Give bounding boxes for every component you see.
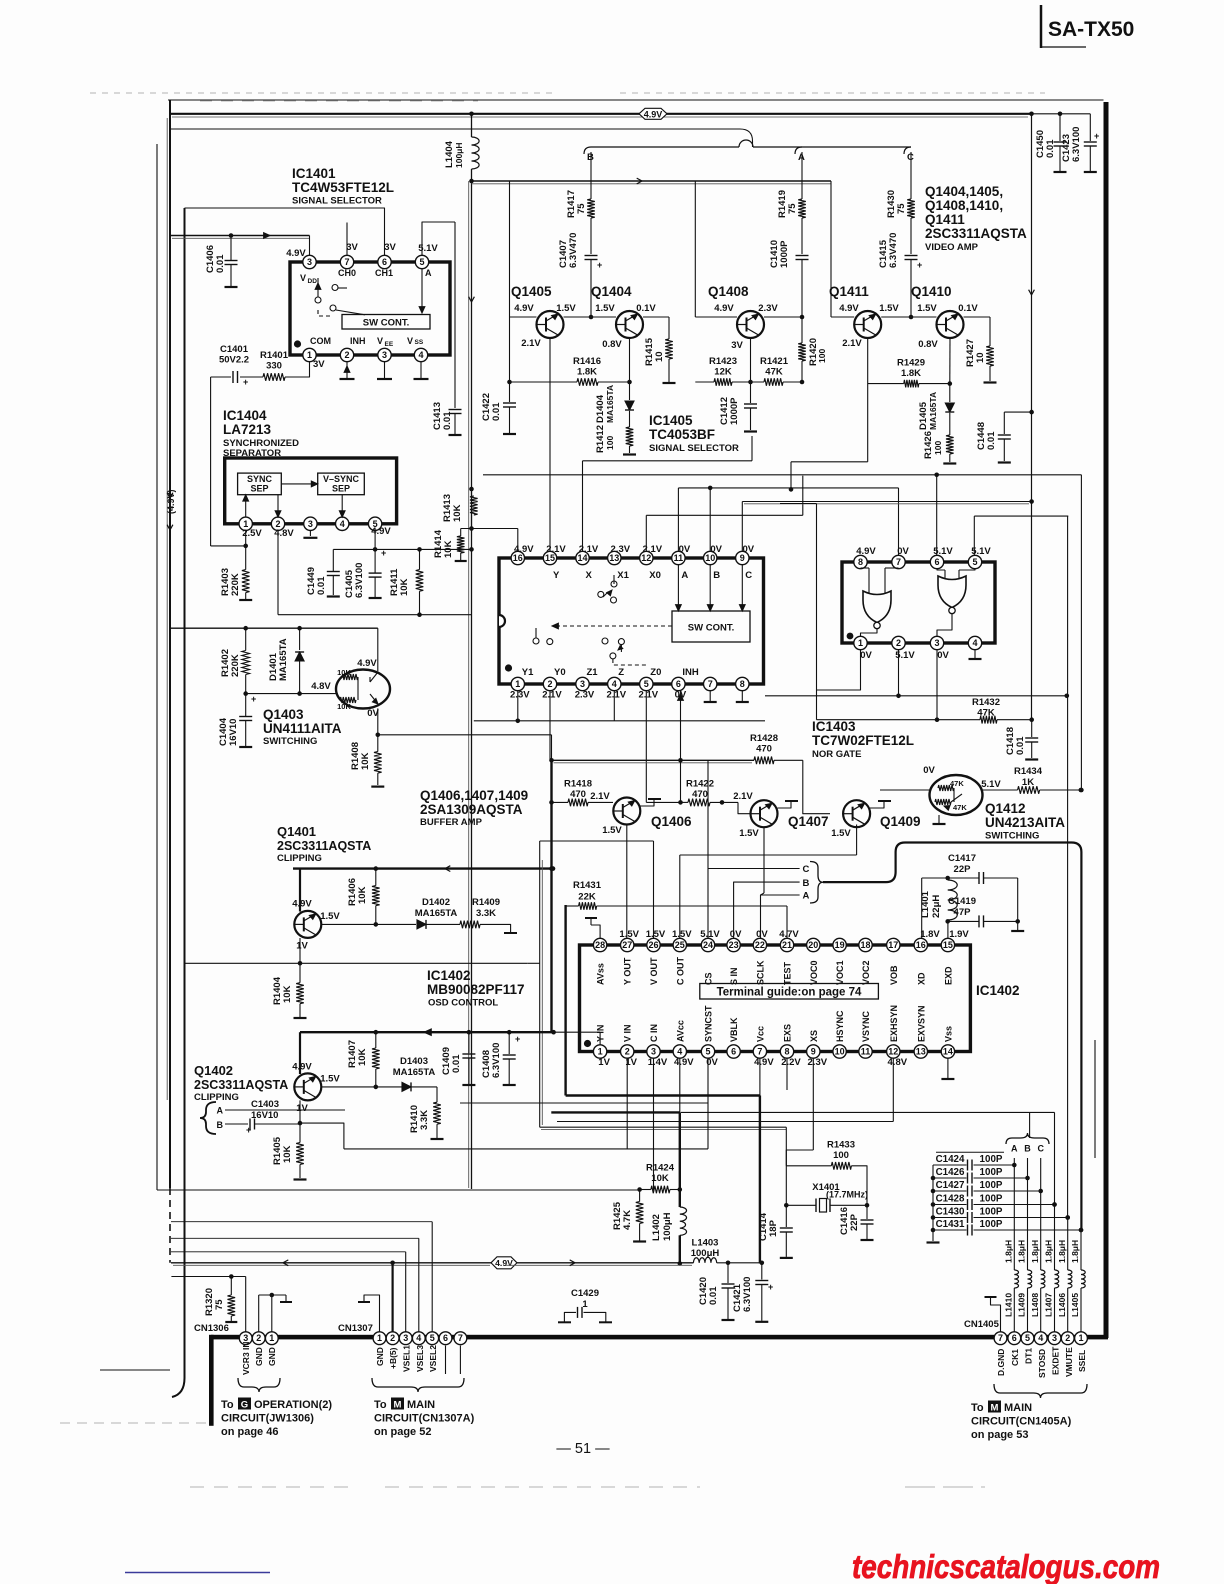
IC1403 pin 1 bbox=[854, 636, 867, 649]
svg-text:C IN: C IN bbox=[649, 1024, 659, 1042]
svg-text:L1401: L1401 bbox=[920, 890, 931, 918]
wire CN1307 gnd pin bbox=[358, 1295, 380, 1332]
svg-text:Q1408: Q1408 bbox=[708, 284, 749, 299]
IC1401 pin 5 bbox=[415, 255, 428, 268]
wire V IN bbox=[344, 1058, 708, 1149]
IC1402 pin 8b bbox=[780, 1045, 793, 1058]
IC1401 pin5 internal arrow bbox=[419, 269, 425, 314]
IC1401 pin3 ground bbox=[377, 362, 392, 380]
capacitor C1409 bbox=[441, 1032, 475, 1085]
svg-text:0V: 0V bbox=[923, 765, 935, 776]
svg-text:0V: 0V bbox=[897, 546, 909, 557]
Q1402 base node bbox=[321, 1085, 378, 1090]
IC1404 pin 5 bbox=[368, 517, 381, 530]
wire col 6 bbox=[1079, 1228, 1084, 1270]
svg-text:CLIPPING: CLIPPING bbox=[194, 1092, 239, 1103]
svg-text:M: M bbox=[991, 1403, 999, 1414]
svg-text:4.9V: 4.9V bbox=[292, 899, 312, 910]
svg-text:1: 1 bbox=[1078, 1333, 1083, 1343]
svg-text:+: + bbox=[768, 1282, 773, 1292]
svg-text:2SC3311AQSTA: 2SC3311AQSTA bbox=[277, 839, 371, 853]
svg-text:Z0: Z0 bbox=[650, 667, 661, 678]
svg-text:330: 330 bbox=[266, 361, 282, 372]
IC1402 pin 14b bbox=[941, 1045, 954, 1058]
svg-text:OSD CONTROL: OSD CONTROL bbox=[428, 998, 498, 1009]
svg-text:DT1: DT1 bbox=[1024, 1348, 1034, 1364]
svg-text:0.01: 0.01 bbox=[491, 402, 502, 421]
svg-text:10K: 10K bbox=[443, 540, 454, 558]
wire Q1403 emitter bbox=[367, 708, 551, 760]
svg-text:4.9V: 4.9V bbox=[644, 109, 663, 119]
wire emitter drop Q1408 bbox=[694, 181, 696, 317]
IC1404 pin 2 bbox=[271, 517, 284, 530]
svg-text:22: 22 bbox=[755, 940, 765, 950]
IC1401 internal switch bbox=[315, 278, 365, 316]
svg-text:1V: 1V bbox=[296, 1103, 308, 1114]
svg-text:4: 4 bbox=[972, 638, 977, 648]
svg-text:BUFFER AMP: BUFFER AMP bbox=[420, 817, 483, 828]
svg-text:1: 1 bbox=[598, 1047, 603, 1057]
svg-text:6: 6 bbox=[382, 257, 387, 267]
resistor R1407 bbox=[347, 1032, 380, 1087]
svg-text:100P: 100P bbox=[980, 1167, 1003, 1178]
IC1405 pin8 ground bbox=[736, 690, 749, 702]
svg-text:0V: 0V bbox=[742, 544, 754, 555]
svg-text:IC1401: IC1401 bbox=[292, 166, 336, 181]
inductor L1410 bbox=[1014, 1270, 1018, 1288]
svg-text:100μH: 100μH bbox=[691, 1248, 720, 1259]
svg-text:100P: 100P bbox=[980, 1154, 1003, 1165]
svg-text:0V: 0V bbox=[710, 544, 722, 555]
svg-text:2: 2 bbox=[390, 1333, 395, 1343]
svg-text:4: 4 bbox=[677, 1047, 682, 1057]
svg-text:SYNCST: SYNCST bbox=[704, 1005, 714, 1042]
svg-text:22μH: 22μH bbox=[931, 895, 942, 918]
svg-text:technicscatalogus.com: technicscatalogus.com bbox=[852, 1549, 1160, 1584]
svg-text:100: 100 bbox=[933, 441, 943, 455]
IC1402 pin 4b bbox=[673, 1045, 686, 1058]
wire VDD bus to pin3 bbox=[170, 233, 310, 259]
svg-text:4.9V: 4.9V bbox=[839, 303, 859, 314]
IC1405 pin 10 bbox=[704, 551, 717, 564]
wire IC1403 pin1 out bbox=[780, 504, 861, 720]
svg-text:INH: INH bbox=[350, 336, 366, 346]
IC1401 pin names bbox=[300, 268, 432, 348]
IC1402 pin 24 bbox=[701, 938, 714, 951]
svg-text:UN4111AITA: UN4111AITA bbox=[263, 721, 342, 736]
IC1401 pin4 ground bbox=[414, 362, 429, 380]
wire thick left bus bbox=[564, 905, 566, 1096]
Q1405 label bbox=[511, 284, 552, 299]
IC1404 pin 1 bbox=[239, 517, 252, 530]
svg-text:VMUTE: VMUTE bbox=[1064, 1347, 1074, 1377]
wire node under IC1404 bbox=[278, 614, 472, 616]
resistor R1418 bbox=[552, 779, 614, 807]
svg-text:+: + bbox=[917, 260, 922, 270]
svg-text:0V: 0V bbox=[860, 650, 872, 661]
wire thick y1032 OSD bus bbox=[300, 1029, 600, 1045]
svg-text:0V: 0V bbox=[679, 544, 691, 555]
IC1402 pin 6b bbox=[727, 1045, 740, 1058]
svg-text:5: 5 bbox=[972, 557, 977, 567]
resistor R1405 bbox=[272, 1123, 307, 1179]
resistor R1404 bbox=[272, 963, 307, 1018]
connector CN1307 pin 5 bbox=[426, 1332, 439, 1345]
svg-text:TEST: TEST bbox=[783, 961, 793, 985]
svg-text:LA7213: LA7213 bbox=[223, 422, 272, 437]
IC1401 pin2 ground bbox=[340, 362, 355, 380]
svg-text:3: 3 bbox=[580, 679, 585, 689]
buffer amp group label bbox=[420, 788, 528, 828]
svg-text:7: 7 bbox=[757, 1047, 762, 1057]
wire Q1407 emitter out bbox=[761, 827, 765, 895]
wire feeder upper bbox=[171, 129, 753, 147]
IC1402 pin 16 bbox=[914, 938, 927, 951]
svg-text:S IN: S IN bbox=[729, 967, 739, 985]
svg-text:(17.7MHz): (17.7MHz) bbox=[826, 1190, 868, 1200]
svg-text:To: To bbox=[374, 1399, 387, 1411]
resistor R1320 bbox=[204, 1277, 237, 1323]
svg-text:10: 10 bbox=[975, 352, 986, 363]
IC1405 pin 8b bbox=[736, 677, 749, 690]
IC1402 pin 23 bbox=[727, 938, 740, 951]
svg-text:C1401: C1401 bbox=[220, 344, 249, 355]
svg-text:4.9V: 4.9V bbox=[357, 658, 377, 669]
resistor R1403 bbox=[220, 568, 252, 600]
capacitor C1413 bbox=[432, 222, 462, 435]
connector CN1405 pin 4 bbox=[1034, 1332, 1047, 1345]
inductor L1401 bbox=[920, 876, 957, 939]
svg-text:D1402: D1402 bbox=[422, 897, 450, 908]
IC1405 pin 13 bbox=[608, 551, 621, 564]
svg-text:10: 10 bbox=[654, 351, 665, 362]
wire base row q1408 bbox=[695, 316, 802, 318]
svg-text:NOR GATE: NOR GATE bbox=[812, 749, 861, 760]
capacitor C1406 bbox=[205, 236, 238, 288]
blue underline bbox=[125, 1572, 270, 1574]
IC1402 pin 15 bbox=[941, 938, 954, 951]
svg-text:47K: 47K bbox=[950, 779, 964, 788]
svg-text:A: A bbox=[217, 1106, 224, 1116]
svg-text:SWITCHING: SWITCHING bbox=[263, 736, 317, 747]
IC1403 NOR gate 2 bbox=[937, 568, 975, 614]
svg-text:3.3K: 3.3K bbox=[476, 908, 496, 919]
wire pin9 up bbox=[742, 502, 1031, 552]
svg-text:To: To bbox=[221, 1399, 234, 1411]
wire left inner vertical bbox=[157, 144, 640, 1190]
resistor R1416 bbox=[507, 356, 629, 386]
IC1405 pin 6b bbox=[672, 677, 685, 690]
resistor R1425 bbox=[612, 1190, 646, 1242]
svg-text:4.7K: 4.7K bbox=[622, 1210, 633, 1230]
svg-text:R1428: R1428 bbox=[750, 733, 778, 744]
svg-text:Y1: Y1 bbox=[522, 667, 534, 678]
svg-text:10K: 10K bbox=[357, 886, 368, 904]
resistor R1428 bbox=[750, 733, 778, 764]
Q1412 labels bbox=[923, 765, 1065, 842]
To MAIN CN1307A text bbox=[374, 1398, 475, 1439]
wire CN1307 +B thick bbox=[392, 1263, 394, 1332]
resistor R1410 bbox=[409, 1087, 444, 1139]
wire COM pin1 bbox=[211, 359, 326, 546]
svg-text:4.9V: 4.9V bbox=[674, 1057, 694, 1068]
svg-text:C OUT: C OUT bbox=[675, 957, 685, 986]
svg-text:1.8K: 1.8K bbox=[901, 368, 921, 379]
svg-text:4: 4 bbox=[340, 519, 345, 529]
connector CN1307 pin 7 bbox=[454, 1332, 467, 1345]
svg-text:3V: 3V bbox=[384, 242, 396, 253]
svg-text:VSEL1: VSEL1 bbox=[402, 1345, 412, 1372]
wire base row q1405-q1404 bbox=[510, 316, 617, 318]
svg-text:2: 2 bbox=[896, 638, 901, 648]
svg-text:C: C bbox=[803, 864, 810, 875]
svg-text:2SC3311AQSTA: 2SC3311AQSTA bbox=[194, 1078, 288, 1092]
svg-text:MA165TA: MA165TA bbox=[393, 1067, 436, 1078]
wire col 4 bbox=[1052, 1112, 1057, 1270]
connector CN1405 pin 3 bbox=[1048, 1332, 1061, 1345]
svg-text:VCR3 IN: VCR3 IN bbox=[241, 1341, 251, 1375]
svg-text:SSEL: SSEL bbox=[1077, 1350, 1087, 1372]
svg-text:VBLK: VBLK bbox=[729, 1017, 739, 1042]
svg-text:Q1406: Q1406 bbox=[651, 814, 692, 829]
svg-text:2: 2 bbox=[1065, 1333, 1070, 1343]
row voltages bbox=[514, 303, 978, 351]
svg-text:VSEL2: VSEL2 bbox=[428, 1345, 438, 1372]
IC1402 pin 7b bbox=[753, 1045, 766, 1058]
svg-text:R1431: R1431 bbox=[573, 880, 602, 891]
IC1401 pin1 marker bbox=[294, 340, 301, 347]
svg-text:14: 14 bbox=[943, 1047, 953, 1057]
brace select ABC bbox=[810, 862, 823, 904]
svg-text:+: + bbox=[251, 694, 256, 704]
svg-text:IC1404: IC1404 bbox=[223, 408, 267, 423]
wire pin4 down bbox=[613, 690, 615, 721]
capacitor C1421 bbox=[732, 1263, 773, 1322]
wire R1414 node bbox=[461, 529, 518, 552]
svg-text:26: 26 bbox=[648, 940, 658, 950]
svg-text:R1424: R1424 bbox=[646, 1163, 675, 1174]
capacitor C1430 bbox=[933, 1207, 1070, 1223]
IC1403 NOR gate 1 bbox=[861, 568, 899, 629]
svg-text:D.GND: D.GND bbox=[996, 1349, 1006, 1376]
svg-text:6.3V100: 6.3V100 bbox=[491, 1043, 502, 1078]
svg-text:Q1407: Q1407 bbox=[788, 814, 829, 829]
inductor L1408 bbox=[1041, 1270, 1045, 1288]
wire pin12 up bbox=[646, 476, 803, 552]
svg-text:1.8K: 1.8K bbox=[577, 367, 597, 378]
IC1401 pin 3 bbox=[303, 255, 316, 268]
diode D1405 bbox=[918, 384, 954, 435]
transistor Q1402 bbox=[292, 1062, 340, 1115]
svg-text:3.3K: 3.3K bbox=[419, 1110, 430, 1130]
IC1405 pin 9 bbox=[736, 551, 749, 564]
wire C1414 vertical bbox=[784, 1127, 789, 1207]
svg-text:3V: 3V bbox=[731, 340, 743, 351]
svg-text:0.8V: 0.8V bbox=[602, 339, 622, 350]
wire IC1404 pin2 down bbox=[277, 530, 279, 615]
IC1405 top names bbox=[553, 570, 752, 581]
svg-text:MAIN: MAIN bbox=[1004, 1402, 1032, 1414]
svg-text:C1427: C1427 bbox=[936, 1180, 965, 1191]
svg-text:R1433: R1433 bbox=[827, 1140, 855, 1151]
svg-text:100: 100 bbox=[605, 436, 615, 450]
svg-text:X0: X0 bbox=[649, 570, 661, 581]
svg-text:EXDET: EXDET bbox=[1051, 1346, 1061, 1375]
connector CN1307 pin 3 bbox=[399, 1332, 412, 1345]
svg-text:D1403: D1403 bbox=[400, 1056, 428, 1067]
svg-text:10K: 10K bbox=[357, 1048, 368, 1066]
transistor Q1412 bbox=[930, 775, 983, 815]
wire 4.9V row bus bbox=[472, 178, 832, 184]
svg-text:100P: 100P bbox=[980, 1180, 1003, 1191]
connector CN1405 pin 6 bbox=[1008, 1332, 1021, 1345]
IC1403 block bbox=[842, 562, 995, 643]
svg-text:2.1V: 2.1V bbox=[643, 544, 663, 555]
svg-text:V: V bbox=[377, 336, 383, 346]
svg-text:+B(5): +B(5) bbox=[388, 1347, 398, 1369]
IC1403 gate outputs bbox=[861, 614, 953, 637]
svg-text:MA165TA: MA165TA bbox=[605, 385, 615, 423]
svg-text:220K: 220K bbox=[230, 654, 241, 677]
IC1402 pin14 ground bbox=[941, 1058, 954, 1079]
svg-text:VOC1: VOC1 bbox=[835, 960, 845, 985]
crystal X1401 bbox=[786, 1182, 869, 1212]
wire SYNCST bbox=[460, 1058, 708, 1103]
svg-text:2.1V: 2.1V bbox=[521, 338, 541, 349]
IC1402 pin 21 bbox=[780, 938, 793, 951]
svg-text:1.8μH: 1.8μH bbox=[1004, 1240, 1014, 1263]
svg-text:4: 4 bbox=[418, 350, 423, 360]
connector CN1405 pin 7 bbox=[994, 1332, 1007, 1345]
inductor L1404 bbox=[444, 137, 479, 169]
IC1405 bottom voltages bbox=[510, 690, 687, 701]
wire Q1405 collector to pin15 bbox=[549, 338, 551, 552]
svg-text:B: B bbox=[217, 1120, 224, 1130]
capacitor C1404 bbox=[218, 694, 256, 747]
model number SA-TX50 bbox=[1041, 5, 1134, 48]
svg-text:19: 19 bbox=[835, 940, 845, 950]
wire top frame line bbox=[168, 99, 1104, 101]
wire select C bbox=[708, 864, 810, 939]
connector CN1307 pin 6 bbox=[439, 1332, 452, 1345]
brace ABC bottom bbox=[1006, 1112, 1049, 1153]
diode D1401 bbox=[268, 628, 304, 693]
wire Vcc thick bbox=[566, 1058, 760, 1264]
svg-text:5.1V: 5.1V bbox=[933, 546, 953, 557]
IC1402 block bbox=[580, 945, 971, 1052]
caps top border bbox=[936, 1151, 1004, 1153]
transistor Q1407 bbox=[739, 800, 777, 839]
svg-text:5: 5 bbox=[644, 679, 649, 689]
svg-text:10: 10 bbox=[835, 1047, 845, 1057]
svg-text:2: 2 bbox=[547, 679, 552, 689]
IC1401 pin 3b bbox=[378, 348, 391, 361]
wire AVcc thick bbox=[551, 1058, 682, 1266]
svg-text:0.01: 0.01 bbox=[215, 254, 226, 273]
capacitor C1415 bbox=[878, 233, 922, 320]
svg-text:CIRCUIT(CN1405A): CIRCUIT(CN1405A) bbox=[971, 1416, 1072, 1428]
svg-text:10K: 10K bbox=[282, 985, 293, 1003]
svg-text:CN1306: CN1306 bbox=[194, 1323, 229, 1334]
svg-text:0.01: 0.01 bbox=[986, 431, 997, 450]
svg-text:Vss: Vss bbox=[943, 1026, 953, 1042]
IC1402 pin 17 bbox=[887, 938, 900, 951]
svg-text:7: 7 bbox=[998, 1333, 1003, 1343]
svg-text:3: 3 bbox=[651, 1047, 656, 1057]
svg-text:1V: 1V bbox=[296, 941, 308, 952]
wire VSEL3 bbox=[171, 1238, 419, 1332]
wire thick bus x552 bbox=[549, 758, 554, 1032]
IC1403 pin 4 bbox=[968, 636, 981, 649]
wire emitter drop Q1411 bbox=[830, 181, 832, 317]
wire Q1406 emitter out bbox=[626, 825, 628, 939]
svg-text:C1424: C1424 bbox=[936, 1154, 965, 1165]
capacitor C1403 input brace bbox=[200, 1087, 345, 1135]
svg-text:A: A bbox=[803, 891, 810, 902]
wire second left vertical bbox=[172, 208, 185, 1397]
capacitor C1450 bbox=[1029, 112, 1090, 173]
wire pin5 A bbox=[418, 222, 455, 256]
resistor R1427 bbox=[965, 317, 997, 383]
wire select B bbox=[734, 878, 810, 939]
svg-text:1.8μH: 1.8μH bbox=[1030, 1240, 1040, 1263]
IC1402 pin 18 bbox=[859, 938, 872, 951]
resistor R1406 bbox=[347, 866, 380, 924]
capacitor C1428 bbox=[933, 1194, 1057, 1210]
svg-text:L1402: L1402 bbox=[651, 1214, 662, 1241]
svg-text:Y0: Y0 bbox=[554, 667, 566, 678]
svg-text:6: 6 bbox=[934, 557, 939, 567]
Q1402 emitter node bbox=[298, 1100, 344, 1149]
svg-text:0V: 0V bbox=[937, 650, 949, 661]
svg-text:Q1411: Q1411 bbox=[829, 284, 869, 299]
capacitor C1408 bbox=[481, 1032, 520, 1085]
svg-text:2.1V: 2.1V bbox=[579, 544, 599, 555]
IC1402 pin 5b bbox=[701, 1045, 714, 1058]
Q1402 labels bbox=[194, 1063, 288, 1103]
svg-text:R1422: R1422 bbox=[686, 779, 714, 790]
IC1402 top voltages bbox=[619, 929, 799, 940]
IC1403 pin4 ground bbox=[969, 649, 982, 659]
svg-text:47K: 47K bbox=[977, 708, 995, 719]
wire CN1306 pin3 bbox=[171, 1274, 245, 1332]
svg-text:4.8V: 4.8V bbox=[274, 528, 294, 539]
svg-text:470: 470 bbox=[692, 789, 708, 800]
X1401 label2 bbox=[0, 0, 868, 1200]
IC1404 pin 3 bbox=[304, 517, 317, 530]
svg-text:12: 12 bbox=[888, 1047, 898, 1057]
svg-text:7: 7 bbox=[708, 679, 713, 689]
svg-text:+: + bbox=[515, 1034, 520, 1044]
svg-text:R1423: R1423 bbox=[709, 356, 737, 367]
svg-text:X: X bbox=[586, 570, 593, 581]
connector CN1307 pin 4 bbox=[412, 1332, 425, 1345]
svg-text:15: 15 bbox=[943, 940, 953, 950]
wire Q1411 emitter node bbox=[789, 338, 952, 492]
resistor R1432 bbox=[972, 697, 1034, 724]
Q1404 label bbox=[591, 284, 632, 299]
svg-text:+: + bbox=[246, 1125, 251, 1135]
svg-text:MAIN: MAIN bbox=[407, 1399, 435, 1411]
svg-text:V IN: V IN bbox=[623, 1024, 633, 1042]
IC1402 pin 12b bbox=[887, 1045, 900, 1058]
resistor R1430 bbox=[886, 152, 915, 254]
svg-text:22K: 22K bbox=[578, 892, 596, 903]
svg-text:L1408: L1408 bbox=[1030, 1293, 1040, 1317]
svg-text:UN4213AITA: UN4213AITA bbox=[985, 815, 1065, 830]
svg-text:16V10: 16V10 bbox=[251, 1110, 278, 1121]
svg-text:SWITCHING: SWITCHING bbox=[985, 831, 1039, 842]
